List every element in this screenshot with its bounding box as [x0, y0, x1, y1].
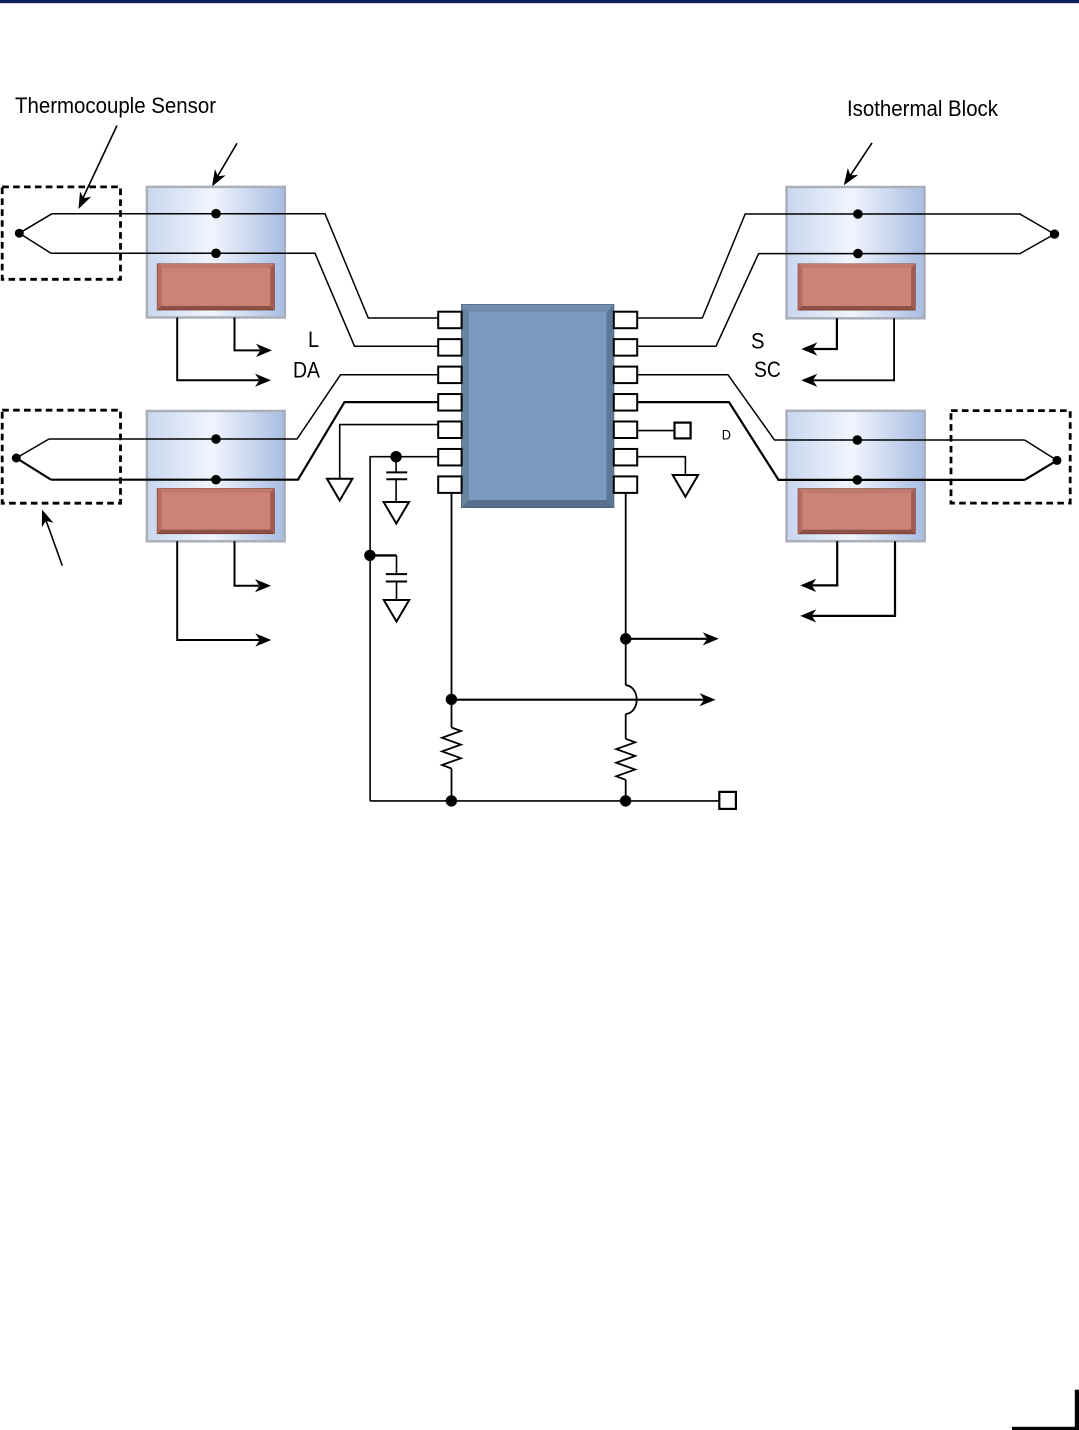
node on block BR wire 1: [853, 435, 863, 445]
thermocouple junction TL: [15, 214, 52, 254]
ground GND3 (below C2): [384, 600, 409, 622]
node on block BL wire 2: [211, 475, 221, 485]
ground GND2 (below C1): [384, 502, 409, 524]
ground GND4 (right): [673, 475, 698, 497]
block TR output arrow 2: [801, 318, 894, 387]
IC pin L5: [438, 422, 461, 439]
IC pin R6: [614, 449, 637, 466]
dashed box BR (thermocouple sensor): [951, 411, 1070, 504]
IC pin R2: [614, 339, 637, 356]
thermocouple junction BR: [1025, 440, 1062, 480]
isothermal block TL: [147, 187, 285, 318]
wire pin L6 to decoupling net: [370, 457, 438, 801]
node on block TL wire 2: [211, 249, 221, 259]
wire BR upper from IC pin R3: [637, 375, 1024, 440]
page footer rule horizontal: [1012, 1427, 1079, 1430]
capacitor C2: [370, 555, 407, 600]
block BL output arrow 1: [235, 541, 272, 592]
terminal square D: [675, 423, 691, 439]
wire TR lower from IC pin R2: [637, 254, 1021, 347]
node A (pin L6 / C1): [390, 451, 401, 462]
svg-text:L: L: [308, 327, 319, 352]
IC pin R7: [614, 476, 637, 493]
resistor R2: [616, 739, 635, 801]
block BL output arrow 2: [177, 541, 271, 646]
node B (rail / C2): [364, 550, 375, 561]
block TR output arrow 1: [801, 318, 837, 355]
svg-text:SC: SC: [754, 357, 781, 382]
IC pin L4: [438, 394, 461, 411]
block TL output arrow 2: [177, 318, 271, 387]
wire TR upper from IC pin R1: [637, 214, 1021, 318]
thermocouple junction TR: [1020, 214, 1059, 254]
ground GND1 (left): [327, 479, 352, 501]
svg-text:Isothermal Block: Isothermal Block: [847, 96, 998, 121]
svg-text:DA: DA: [293, 358, 320, 383]
IC pin R3: [614, 367, 637, 384]
wire pin L7 down: [451, 493, 453, 700]
heater pad BR (red): [798, 489, 915, 534]
svg-text:D: D: [722, 428, 731, 443]
node C (pin L7 / R1 / arrow): [446, 694, 457, 705]
wire BL upper to IC pin L3: [49, 375, 438, 439]
svg-text:Thermocouple Sensor: Thermocouple Sensor: [15, 93, 216, 118]
IC pin L1: [438, 312, 461, 329]
terminal square (rail end): [719, 792, 736, 809]
IC pin R4: [614, 394, 637, 411]
leader arrow to isothermal block TR: [839, 143, 872, 189]
dashed box TL (thermocouple sensor): [2, 187, 120, 279]
IC pin L6: [438, 449, 461, 466]
node E (rail / R1): [446, 795, 457, 806]
top header bar: [0, 0, 1079, 3]
heater pad TL (red): [157, 264, 274, 310]
wire pin R6 to ground: [637, 457, 685, 475]
node F (rail / R2): [620, 795, 631, 806]
output arrow (lower, from node C): [451, 693, 715, 706]
wire BR lower from IC pin R4 (thick): [637, 402, 1024, 480]
wire pin L5 to ground: [340, 425, 439, 479]
IC pin R1: [614, 312, 637, 329]
wire pin R5 to D terminal: [637, 430, 674, 432]
page footer rule vertical: [1075, 1390, 1079, 1430]
node D (pin R7 / R2 / arrow): [620, 633, 631, 644]
ground rail (bottom): [370, 800, 719, 802]
wire pin R7 down: [625, 493, 627, 639]
IC pin L3: [438, 367, 461, 384]
node on block TL wire 1: [211, 209, 221, 219]
resistor R1: [442, 699, 461, 801]
isothermal block BR: [787, 411, 925, 541]
IC U1 body (beveled): [462, 305, 614, 508]
leader arrow to thermocouple BL dashed box: [36, 507, 62, 565]
leader arrow to thermocouple sensor TL: [73, 126, 117, 212]
output arrow (upper, from node D): [626, 632, 719, 645]
block BR output arrow 2: [800, 541, 895, 622]
node on block BR wire 2: [853, 475, 863, 485]
block BR output arrow 1: [800, 541, 837, 592]
wire node D down with hop over arrow: [626, 639, 637, 739]
block TL output arrow 1: [235, 318, 273, 358]
isothermal block BL: [147, 411, 285, 541]
IC pin R5: [614, 422, 637, 439]
IC pin L7: [438, 476, 461, 493]
node on block BL wire 1: [211, 434, 221, 444]
leader arrow to isothermal block TL: [207, 143, 237, 189]
node on block TR wire 1: [853, 209, 863, 219]
svg-text:S: S: [751, 329, 765, 354]
heater pad TR (red): [798, 264, 915, 310]
dashed box BL (thermocouple sensor): [2, 410, 120, 503]
heater pad BL (red): [157, 489, 274, 534]
wire TL upper to IC pin L1: [52, 214, 438, 318]
IC pin L2: [438, 339, 461, 356]
node on block TR wire 2: [853, 249, 863, 259]
capacitor C1: [386, 457, 407, 502]
isothermal block TR: [787, 187, 925, 318]
wire BL lower to IC pin L4 (thick): [51, 402, 438, 480]
wire TL lower to IC pin L2: [51, 253, 438, 346]
thermocouple junction BL: [12, 439, 51, 480]
